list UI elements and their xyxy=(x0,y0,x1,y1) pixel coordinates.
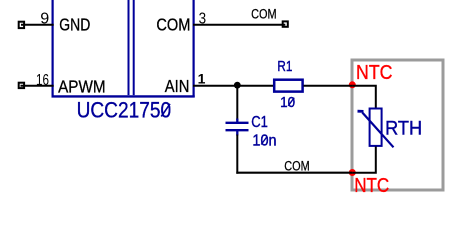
svg-text:APWM: APWM xyxy=(58,77,106,97)
wire R1 to NTC pin xyxy=(304,85,353,87)
svg-text:UCC21750: UCC21750 xyxy=(77,98,172,123)
wire AIN net xyxy=(193,85,274,87)
port square pin 16 xyxy=(19,83,24,88)
svg-text:R1: R1 xyxy=(277,58,292,75)
wire COM net top xyxy=(193,24,285,26)
svg-text:COM: COM xyxy=(284,158,310,173)
capacitor C1 xyxy=(226,119,249,136)
svg-text:COM: COM xyxy=(251,7,277,22)
svg-text:RTH: RTH xyxy=(385,119,422,140)
svg-text:1: 1 xyxy=(198,71,206,87)
svg-text:NTC: NTC xyxy=(356,62,393,84)
resistor R1 xyxy=(274,80,302,92)
svg-text:COM: COM xyxy=(156,15,190,35)
wire NTC top internal xyxy=(352,86,376,108)
svg-text:10: 10 xyxy=(280,94,295,111)
NTC module box xyxy=(352,60,443,190)
svg-text:NTC: NTC xyxy=(354,175,389,197)
wire pin 9 xyxy=(21,24,54,26)
wire C1 top xyxy=(236,86,238,120)
value 10n xyxy=(252,133,276,150)
value 10 xyxy=(280,94,295,111)
pin NTC bottom red dot xyxy=(349,169,356,176)
wire pin 16 xyxy=(21,85,54,87)
wire C1 bottom xyxy=(236,135,238,174)
wire COM net bottom xyxy=(236,172,352,174)
svg-text:GND: GND xyxy=(59,15,90,35)
junction node AIN xyxy=(234,82,241,89)
label UCC21750 xyxy=(77,98,172,123)
wire NTC bottom internal xyxy=(352,147,376,173)
pin NTC top red dot xyxy=(349,81,356,88)
IC U1 UCC21750 body xyxy=(52,0,195,97)
svg-text:C1: C1 xyxy=(251,114,268,131)
port square pin 9 xyxy=(19,22,24,28)
port square COM xyxy=(283,21,288,26)
svg-text:AIN: AIN xyxy=(165,76,190,96)
thermistor RTH xyxy=(358,109,394,148)
